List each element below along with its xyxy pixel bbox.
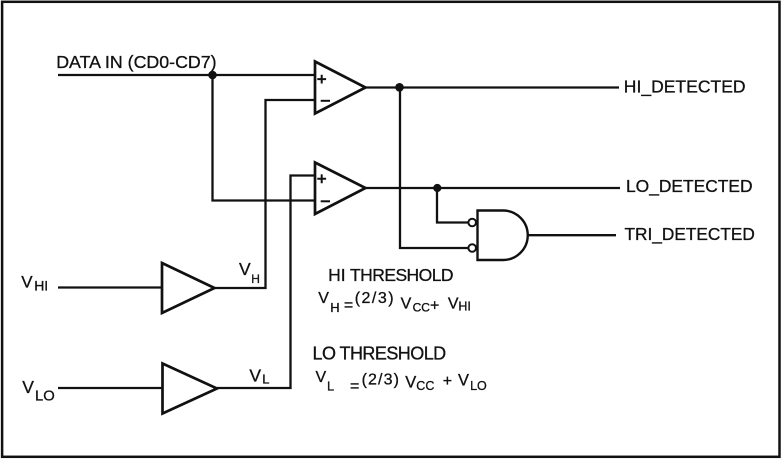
svg-text:HI_DETECTED: HI_DETECTED bbox=[624, 76, 746, 97]
svg-text:V: V bbox=[249, 366, 261, 386]
svg-text:V: V bbox=[22, 377, 34, 397]
svg-text:V: V bbox=[458, 372, 469, 390]
svg-text:(2/3): (2/3) bbox=[362, 371, 400, 388]
svg-text:CC: CC bbox=[413, 301, 431, 315]
svg-text:HI: HI bbox=[34, 278, 48, 294]
svg-text:V: V bbox=[405, 373, 416, 391]
svg-text:LO: LO bbox=[35, 388, 55, 404]
svg-text:V: V bbox=[401, 295, 412, 312]
svg-text:V: V bbox=[239, 259, 251, 279]
svg-text:H: H bbox=[251, 272, 260, 286]
svg-text:=: = bbox=[350, 378, 359, 395]
svg-text:CC: CC bbox=[416, 379, 434, 393]
svg-text:L: L bbox=[262, 372, 269, 387]
svg-text:LO: LO bbox=[470, 379, 487, 393]
svg-text:+: + bbox=[430, 297, 439, 314]
svg-text:HI: HI bbox=[458, 300, 471, 314]
svg-text:DATA IN (CD0-CD7): DATA IN (CD0-CD7) bbox=[56, 52, 216, 72]
svg-text:=: = bbox=[344, 297, 353, 314]
svg-text:THRESHOLD: THRESHOLD bbox=[350, 265, 453, 285]
svg-text:V: V bbox=[318, 290, 329, 307]
svg-text:(2/3): (2/3) bbox=[355, 290, 395, 307]
svg-text:H: H bbox=[330, 300, 339, 315]
svg-text:TRI_DETECTED: TRI_DETECTED bbox=[625, 224, 755, 244]
svg-text:V: V bbox=[316, 369, 327, 386]
svg-text:L: L bbox=[327, 379, 334, 394]
svg-text:LO THRESHOLD: LO THRESHOLD bbox=[313, 344, 447, 364]
svg-text:V: V bbox=[21, 273, 33, 292]
svg-text:+: + bbox=[443, 373, 452, 390]
svg-text:LO_DETECTED: LO_DETECTED bbox=[626, 176, 753, 196]
svg-text:V: V bbox=[448, 296, 459, 313]
svg-text:HI: HI bbox=[328, 265, 346, 285]
